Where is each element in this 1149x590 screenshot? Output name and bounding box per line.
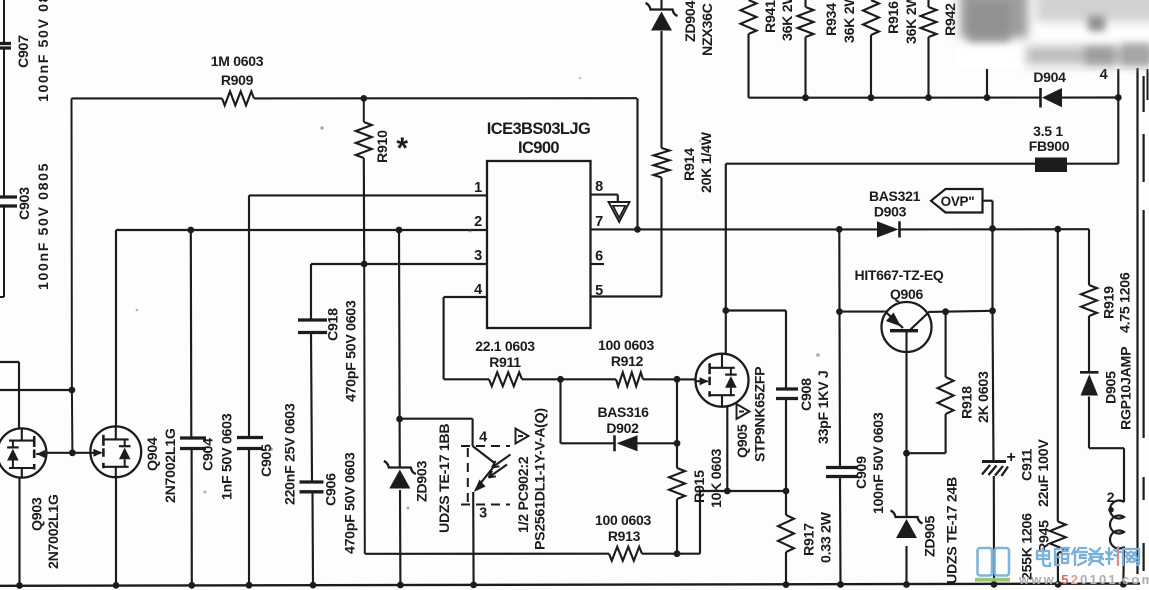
svg-text:0.33 2W: 0.33 2W [818, 511, 834, 563]
svg-text:220nF 25V 0603: 220nF 25V 0603 [282, 403, 298, 505]
svg-text:C909: C909 [854, 456, 870, 489]
svg-text:36K 2W: 36K 2W [842, 0, 858, 43]
svg-text:C907: C907 [16, 35, 32, 68]
svg-text:OVP": OVP" [941, 194, 975, 209]
svg-text:D905: D905 [1103, 371, 1119, 404]
svg-text:ZD904: ZD904 [683, 1, 699, 42]
svg-text:Q903: Q903 [29, 497, 45, 531]
svg-text:4.75 1206: 4.75 1206 [1117, 272, 1133, 333]
svg-text:D902: D902 [606, 420, 639, 436]
svg-text:3: 3 [474, 248, 482, 264]
svg-text:4: 4 [479, 430, 487, 446]
svg-text:22uF 100V: 22uF 100V [1036, 439, 1052, 507]
svg-text:ZD905: ZD905 [922, 516, 938, 557]
svg-text:ZD903: ZD903 [414, 461, 430, 502]
svg-text:R917: R917 [801, 523, 817, 556]
svg-text:7: 7 [595, 214, 603, 230]
svg-text:www.520101.com: www.520101.com [1018, 572, 1149, 587]
svg-text:C908: C908 [799, 378, 815, 411]
svg-text:C903: C903 [17, 187, 33, 220]
svg-text:HIT667-TZ-EQ: HIT667-TZ-EQ [855, 267, 944, 283]
svg-text:R912: R912 [611, 353, 644, 369]
svg-text:R911: R911 [489, 354, 521, 370]
svg-text:470pF 50V 0603: 470pF 50V 0603 [342, 452, 358, 554]
svg-text:Q906: Q906 [890, 286, 924, 302]
svg-text:ICE3BS03LJG: ICE3BS03LJG [487, 120, 590, 138]
svg-text:C905: C905 [259, 444, 275, 477]
svg-text:R919: R919 [1101, 286, 1117, 319]
svg-text:4: 4 [474, 282, 482, 298]
svg-text:R909: R909 [221, 72, 254, 88]
svg-text:BAS321: BAS321 [869, 188, 921, 204]
svg-text:33pF 1KV J: 33pF 1KV J [816, 371, 832, 445]
svg-text:3: 3 [479, 506, 487, 522]
svg-text:2K 0603: 2K 0603 [976, 371, 992, 423]
svg-text:IC900: IC900 [518, 139, 559, 157]
svg-text:36K 2W: 36K 2W [904, 0, 920, 44]
svg-text:5: 5 [595, 283, 603, 299]
svg-text:NZX36C: NZX36C [700, 3, 716, 56]
svg-text:STP9NK65ZFP: STP9NK65ZFP [752, 367, 768, 462]
svg-text:R910: R910 [375, 130, 391, 163]
svg-text:100 0603: 100 0603 [595, 512, 652, 528]
svg-text:FB900: FB900 [1029, 138, 1070, 154]
svg-text:UDZS TE-17 1BB: UDZS TE-17 1BB [437, 424, 453, 533]
svg-text:R918: R918 [959, 386, 975, 419]
svg-text:255K 1206: 255K 1206 [1019, 513, 1035, 580]
svg-text:4: 4 [1100, 67, 1108, 83]
svg-text:RGP10JAMP: RGP10JAMP [1118, 347, 1134, 430]
svg-text:C911: C911 [1019, 449, 1035, 481]
svg-text:3.5 1: 3.5 1 [1033, 123, 1063, 139]
svg-text:2N7002L1G: 2N7002L1G [46, 494, 62, 569]
svg-text:1/2 PC902:2: 1/2 PC902:2 [516, 456, 532, 533]
svg-text:2: 2 [474, 214, 482, 230]
svg-text:100nF 50V 0805: 100nF 50V 0805 [36, 0, 52, 102]
svg-text:100nF 50V 0603: 100nF 50V 0603 [871, 412, 887, 514]
svg-text:36K 2W: 36K 2W [780, 0, 796, 41]
svg-text:D904: D904 [1033, 69, 1066, 85]
svg-text:100nF 50V 0805: 100nF 50V 0805 [36, 162, 52, 290]
svg-text:470pF 50V 0603: 470pF 50V 0603 [343, 300, 359, 402]
svg-text:1M 0603: 1M 0603 [211, 53, 264, 69]
svg-text:2: 2 [1107, 489, 1115, 505]
svg-text:20K 1/4W: 20K 1/4W [699, 131, 715, 193]
svg-text:1nF 50V 0603: 1nF 50V 0603 [219, 413, 235, 500]
svg-text:Q905: Q905 [735, 424, 751, 458]
svg-text:*: * [396, 132, 408, 165]
svg-text:Q904: Q904 [145, 437, 161, 471]
svg-text:22.1 0603: 22.1 0603 [475, 338, 535, 354]
svg-text:R915: R915 [692, 470, 708, 503]
svg-text:C906: C906 [323, 473, 339, 506]
svg-text:R913: R913 [608, 528, 641, 544]
svg-text:R945: R945 [1036, 520, 1052, 553]
svg-text:R914: R914 [682, 148, 698, 181]
svg-text:D903: D903 [874, 204, 907, 220]
svg-text:R934: R934 [824, 3, 840, 36]
svg-text:1: 1 [474, 180, 482, 196]
svg-text:BAS316: BAS316 [597, 404, 649, 420]
svg-text:UDZS TE-17 24B: UDZS TE-17 24B [944, 477, 960, 584]
svg-text:8: 8 [595, 179, 603, 195]
svg-text:C918: C918 [325, 308, 341, 341]
svg-text:2N7002L1G: 2N7002L1G [163, 428, 179, 503]
svg-text:PS2561DL1-1Y-V-A(Q): PS2561DL1-1Y-V-A(Q) [532, 408, 548, 550]
svg-text:R916: R916 [886, 1, 902, 34]
svg-text:+: + [1006, 449, 1015, 466]
svg-text:6: 6 [595, 249, 603, 265]
svg-text:100 0603: 100 0603 [598, 337, 655, 353]
svg-text:R941: R941 [763, 0, 779, 33]
svg-text:10K 0603: 10K 0603 [709, 448, 725, 508]
svg-text:C904: C904 [200, 438, 216, 471]
